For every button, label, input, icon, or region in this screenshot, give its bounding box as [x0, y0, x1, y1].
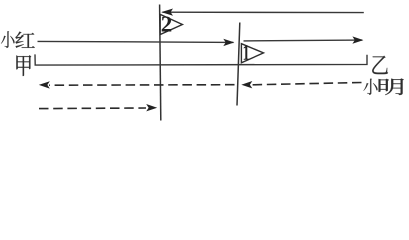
- label 乙: [372, 56, 388, 74]
- flag number 1: [244, 45, 249, 60]
- wire: dashed rightward line at bottom: [39, 104, 157, 111]
- wire: rightward arrow line beyond line 2: [244, 36, 364, 43]
- vertical reference line 2 (right turnaround): [237, 23, 240, 106]
- label 小 of 小红: [1, 31, 15, 48]
- flag marker 2 on line 1: [160, 14, 182, 34]
- flag marker 1 on line 2: [241, 44, 263, 63]
- label 红 of 小红: [15, 32, 34, 48]
- flag number 2: [162, 16, 172, 31]
- wire: 甲-to-乙 bracket line with raised end ticks: [35, 54, 367, 65]
- label 明 of 小明: [379, 79, 404, 95]
- wire: dashed leftward line, right segment with arrow at line 2: [241, 81, 361, 88]
- wire: 小红 rightward arrow line to line 2: [38, 39, 235, 46]
- label 甲: [16, 55, 31, 76]
- label 小 of 小明: [363, 79, 377, 95]
- wire: top leftward arrow line: [161, 9, 364, 16]
- vertical reference line 1 (left turnaround): [160, 5, 161, 121]
- wire: dashed leftward line, left segment with arrow at far left: [39, 81, 235, 88]
